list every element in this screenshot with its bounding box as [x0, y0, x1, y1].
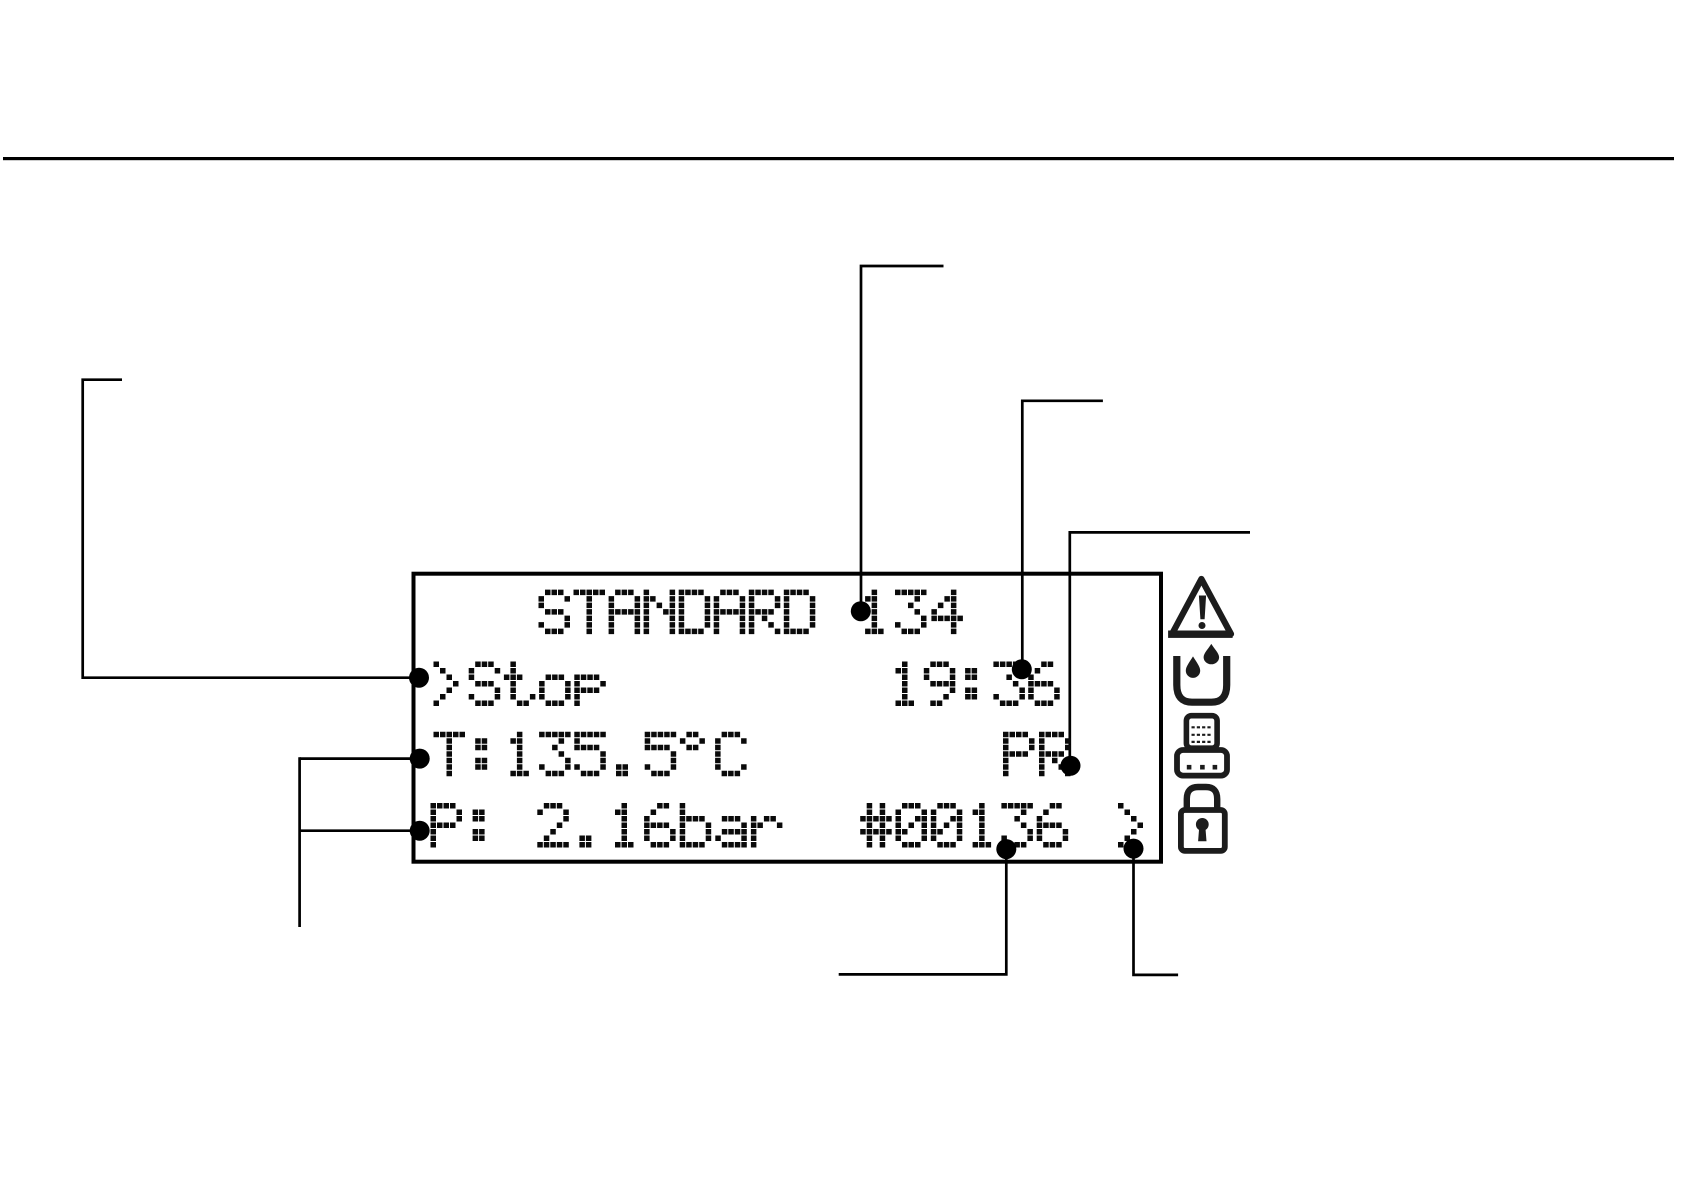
LCD text 'P: 2.16bar' (chamber pressure line 4)	[431, 803, 783, 848]
warning triangle icon (malfunction)	[1168, 579, 1233, 638]
callout leader: shared stem for temperature/pressure	[298, 757, 301, 927]
callout leader: program name (to '134')	[861, 266, 944, 611]
LCD text 'T:135.5°C' (chamber temperature line 3)	[434, 732, 747, 777]
LCD text '134' (program name line 1)	[865, 590, 963, 635]
LCD display frame	[414, 574, 1162, 862]
printer icon (protocol printout)	[1177, 716, 1227, 776]
page top rule	[3, 157, 1674, 160]
LCD text '>Stop' (program status line 2)	[434, 662, 606, 707]
callout leader: batch counter (to '#00136')	[839, 849, 1007, 974]
callout leader: temperature (to 'T:')	[300, 757, 420, 760]
callout dot on 'T:'	[410, 749, 430, 769]
callout leader: status line (to '>Stop')	[83, 380, 419, 678]
LCD text '19:36' (time of day line 2)	[896, 662, 1060, 707]
callout leader: pressure (to 'P:')	[300, 829, 420, 832]
LCD text '#00136' (batch counter line 4)	[860, 803, 1068, 848]
callout leader: scroll indicator (to '>')	[1134, 849, 1179, 975]
LCD text 'PR' (program phase line 3)	[1003, 732, 1071, 777]
callout dot on '>Stop'	[409, 668, 429, 688]
door lock icon	[1181, 787, 1225, 851]
callout dot on 'PR'	[1061, 756, 1081, 776]
callout dot on '#00136'	[996, 839, 1016, 859]
feed water icon (water container with drops)	[1177, 644, 1227, 702]
callout dot on '134'	[851, 601, 871, 621]
callout dot on 'P:'	[410, 821, 430, 841]
callout leader: time of day (to '19:36')	[1022, 401, 1103, 669]
callout dot on '19:36'	[1012, 659, 1032, 679]
callout dot on '>' scroll indicator	[1124, 839, 1144, 859]
callout leader: program phase (to 'PR')	[1070, 532, 1250, 765]
LCD text 'STANDARD' (program name line 1)	[539, 590, 816, 635]
LCD text '>' (scroll indicator line 4)	[1118, 803, 1143, 848]
